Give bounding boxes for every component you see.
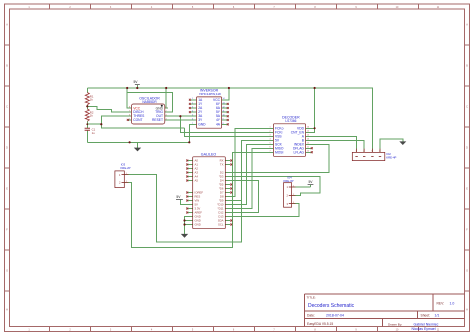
svg-text:2: 2 — [126, 181, 127, 183]
svg-text:GND: GND — [198, 122, 206, 126]
svg-text:Gabriel Niemiec: Gabriel Niemiec — [414, 322, 439, 326]
svg-text:Sheet:: Sheet: — [421, 314, 431, 318]
svg-text:H: H — [466, 309, 468, 312]
svg-text:RESET: RESET — [152, 118, 163, 122]
svg-text:10: 10 — [307, 151, 309, 153]
svg-text:11: 11 — [307, 147, 309, 149]
svg-text:3: 3 — [293, 202, 294, 204]
svg-text:KRE-3P: KRE-3P — [283, 179, 293, 183]
svg-text:5: 5 — [129, 118, 130, 120]
svg-text:1u: 1u — [92, 131, 96, 135]
svg-text:LS7366: LS7366 — [285, 119, 296, 123]
svg-text:74HC14PW,118: 74HC14PW,118 — [199, 92, 221, 96]
svg-text:7: 7 — [129, 111, 130, 113]
svg-text:5: 5 — [270, 143, 271, 145]
svg-text:A5: A5 — [195, 179, 199, 183]
svg-text:GND: GND — [195, 223, 201, 227]
svg-text:1: 1 — [356, 150, 357, 152]
svg-text:2: 2 — [192, 102, 193, 104]
svg-text:Date:: Date: — [307, 314, 315, 318]
svg-text:16: 16 — [307, 127, 309, 129]
svg-text:3: 3 — [192, 106, 193, 108]
svg-text:13: 13 — [223, 102, 225, 104]
svg-text:Nicolas Eymael: Nicolas Eymael — [412, 327, 436, 331]
svg-text:7: 7 — [192, 123, 193, 125]
svg-text:13: 13 — [307, 139, 309, 141]
svg-text:3: 3 — [166, 115, 167, 117]
svg-text:G: G — [6, 270, 8, 273]
svg-text:1: 1 — [293, 186, 294, 188]
svg-text:2: 2 — [363, 150, 364, 152]
svg-text:TITLE:: TITLE: — [307, 295, 316, 299]
svg-text:CONT: CONT — [133, 118, 142, 122]
svg-text:KRE-2P: KRE-2P — [120, 166, 130, 170]
svg-text:SCL: SCL — [218, 223, 224, 227]
svg-text:H: H — [6, 309, 8, 312]
svg-text:EasyEDA V5.5.15: EasyEDA V5.5.15 — [307, 322, 333, 326]
svg-text:10: 10 — [223, 115, 225, 117]
svg-text:5: 5 — [192, 115, 193, 117]
svg-text:GALILEO: GALILEO — [201, 153, 217, 157]
svg-text:6: 6 — [192, 118, 193, 120]
svg-text:11: 11 — [223, 111, 225, 113]
svg-text:Decoders Schematic: Decoders Schematic — [308, 303, 355, 309]
svg-text:12: 12 — [307, 143, 309, 145]
svg-text:6: 6 — [129, 115, 130, 117]
svg-text:4: 4 — [166, 118, 167, 120]
svg-text:15: 15 — [307, 131, 309, 133]
svg-text:3: 3 — [371, 150, 372, 152]
svg-text:1: 1 — [166, 107, 167, 109]
svg-text:REV:: REV: — [437, 302, 445, 306]
svg-text:LFLAG: LFLAG — [294, 150, 305, 154]
svg-text:1: 1 — [192, 98, 193, 100]
svg-text:14: 14 — [223, 98, 225, 100]
svg-text:1/1: 1/1 — [435, 314, 440, 318]
svg-text:4: 4 — [270, 139, 271, 141]
svg-text:4: 4 — [192, 111, 193, 113]
svg-text:8: 8 — [129, 107, 130, 109]
svg-text:D: D — [466, 147, 468, 150]
svg-text:2018-07-04: 2018-07-04 — [326, 314, 344, 318]
svg-text:1: 1 — [270, 127, 271, 129]
svg-text:2: 2 — [270, 131, 271, 133]
svg-text:Drawn By:: Drawn By: — [388, 322, 402, 326]
svg-text:12: 12 — [223, 106, 225, 108]
svg-text:NA555DR: NA555DR — [142, 100, 157, 104]
svg-text:3: 3 — [270, 135, 271, 137]
svg-text:2: 2 — [166, 111, 167, 113]
svg-text:D: D — [6, 147, 8, 150]
svg-text:TX: TX — [220, 163, 224, 167]
svg-text:1.0: 1.0 — [450, 302, 455, 306]
svg-text:C: C — [6, 106, 8, 109]
svg-text:8: 8 — [223, 123, 224, 125]
svg-text:7: 7 — [270, 151, 271, 153]
svg-text:C: C — [466, 106, 468, 109]
svg-text:9: 9 — [223, 118, 224, 120]
svg-text:4: 4 — [379, 150, 380, 152]
svg-text:G: G — [466, 270, 468, 273]
svg-text:2: 2 — [293, 194, 294, 196]
svg-text:MOSI: MOSI — [275, 150, 284, 154]
svg-text:6: 6 — [270, 147, 271, 149]
svg-text:KRE-4P: KRE-4P — [386, 155, 396, 159]
svg-text:1: 1 — [126, 173, 127, 175]
svg-text:14: 14 — [307, 135, 309, 137]
